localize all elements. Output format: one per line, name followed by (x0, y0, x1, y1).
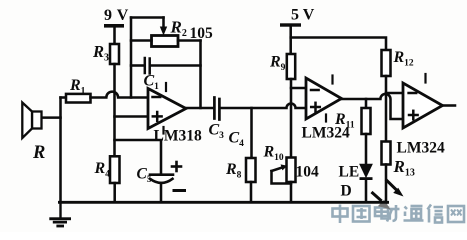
wire: speaker output column down to ground rail (59, 98, 62, 203)
power 9V bar (104, 24, 124, 28)
wire: drop to R11 (365, 99, 368, 108)
svg-text:R13: R13 (393, 157, 415, 179)
LED emission arrow 2 (373, 193, 381, 200)
svg-text:LM324: LM324 (302, 125, 350, 142)
watermark zhongguo dianli tongxin wang (333, 205, 465, 224)
wire: C1 right (151, 64, 201, 67)
wire: top wiper wire (131, 16, 164, 19)
U2 power pin bottom (325, 115, 327, 122)
op-amp U3 LM324 (403, 83, 443, 128)
wire: drop to R8 (250, 108, 253, 158)
ground rail (59, 201, 387, 204)
wire: wiper arrow onto R2 (162, 18, 165, 29)
U2 minus symbol (311, 89, 319, 92)
svg-text:R12: R12 (393, 49, 414, 69)
wire: R10 wiper tie-down (272, 171, 292, 184)
resistor R8 (246, 158, 256, 182)
op-amp U1 LM318 (148, 89, 186, 129)
R10 wiper arrow (272, 167, 284, 171)
wire: R4 bottom to rail (113, 183, 116, 202)
potentiometer R2 (152, 36, 179, 47)
svg-text:C3: C3 (209, 122, 225, 142)
wire: R10 bottom to rail (290, 182, 293, 202)
wire: U3 output stub (443, 104, 456, 107)
wire: divider column R9 to R10 (290, 79, 293, 158)
wire: to U3 inverting input (386, 92, 403, 95)
resistor R1 (66, 94, 91, 103)
ground symbol (59, 203, 61, 218)
svg-text:9 V: 9 V (104, 7, 129, 24)
svg-text:R10: R10 (263, 144, 284, 164)
wire: R13 bottom to rail end (385, 165, 388, 204)
svg-text:C4: C4 (229, 130, 245, 150)
wire: R2 right stub (178, 39, 201, 42)
svg-text:104: 104 (296, 164, 320, 181)
wire: C1 left (131, 64, 144, 67)
svg-text:LE: LE (339, 164, 360, 181)
wire: LED to rail (365, 180, 368, 202)
svg-text:R2: R2 (170, 18, 187, 40)
C5 plus polarity (172, 162, 181, 171)
resistor R11 (362, 108, 371, 134)
wire: branch to C5 (115, 140, 162, 174)
wire: 5V rail across to R12 (291, 38, 386, 51)
wire: 9V to R3 (113, 28, 116, 45)
U3 plus symbol (409, 111, 418, 120)
svg-text:R1: R1 (69, 77, 86, 97)
resistor R12 (382, 50, 391, 76)
wire: R2 left stub (131, 39, 152, 42)
wire: C3 to U2 plus input with crossover hump (221, 104, 306, 108)
LED emission arrow 1 (387, 181, 397, 191)
speaker MIC body (22, 103, 41, 139)
resistor R3 (110, 44, 119, 64)
capacitor C1 (145, 58, 150, 74)
U2 plus symbol (311, 103, 320, 112)
resistor R4 (110, 156, 120, 183)
svg-text:R9: R9 (269, 54, 286, 74)
wire: U2 output with crossover hump then to U3 plus input (342, 94, 404, 119)
LED D1 (360, 165, 371, 177)
svg-text:LM318: LM318 (154, 128, 202, 145)
potentiometer R10 (287, 158, 296, 183)
wire: divider column R12 to R13 (385, 76, 388, 142)
wire: U1 output to C3 (186, 107, 213, 110)
capacitor C5 electrolytic (150, 175, 173, 183)
wire: C5 bottom to rail (160, 183, 163, 202)
U3 power pin top (424, 74, 426, 83)
wire: R1 to op-amp inverting input with crossover hump (91, 92, 149, 98)
capacitor C3 (214, 98, 219, 120)
wire: divider column R3 to R4 (113, 64, 116, 156)
wire: to U2 inverting input (291, 87, 306, 90)
wire: right feedback vertical (199, 41, 202, 109)
svg-text:R3: R3 (92, 42, 109, 64)
op-amp U2 LM324 (306, 78, 342, 119)
U2 power pin top (331, 76, 333, 84)
wire: R1 left stub (61, 96, 67, 99)
U1 plus symbol (153, 112, 162, 121)
C5 minus polarity (174, 189, 185, 192)
resistor R9 (287, 54, 295, 79)
U1 power pin bottom (162, 127, 164, 134)
svg-text:R8: R8 (225, 161, 242, 181)
power 5V bar (280, 23, 301, 26)
U1 power pin top (165, 83, 167, 91)
U3 minus symbol (409, 92, 417, 95)
wire: R8 bottom to rail (250, 182, 253, 202)
resistor R13 (382, 142, 391, 165)
wire: 5V down to R9 (289, 27, 292, 54)
wire: R11 to LED (365, 134, 368, 165)
wire: speaker to column (42, 116, 61, 119)
svg-text:D: D (341, 183, 352, 200)
svg-text:5 V: 5 V (291, 7, 315, 24)
svg-text:LM324: LM324 (397, 140, 445, 157)
svg-text:C5: C5 (137, 166, 152, 186)
svg-text:R4: R4 (94, 160, 111, 180)
wire: left feedback vertical (130, 18, 133, 98)
svg-text:R: R (32, 143, 45, 163)
U1 minus symbol (153, 96, 161, 99)
wire: non-inverting input of U1 (115, 115, 149, 118)
